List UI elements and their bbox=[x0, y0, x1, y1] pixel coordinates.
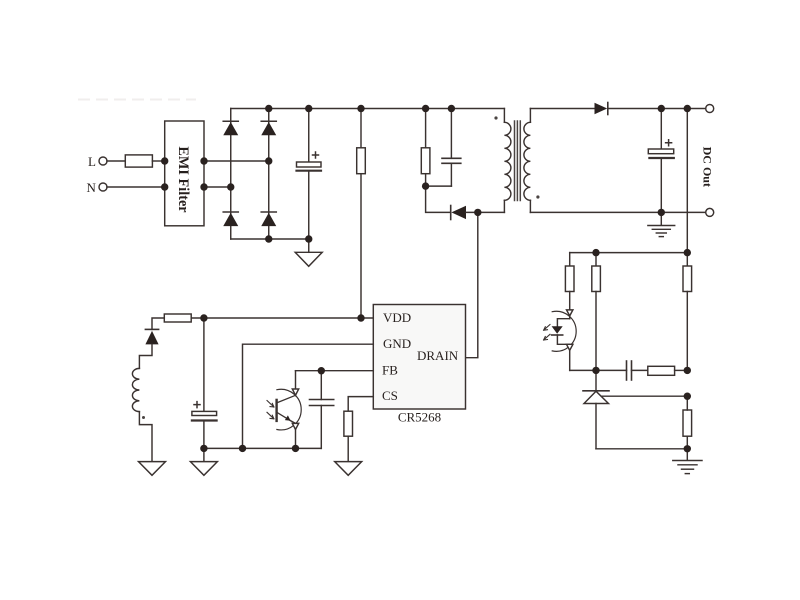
junction dot VDD at startup resistor bbox=[357, 314, 364, 321]
junction dot primary ground at opto emitter bbox=[292, 445, 299, 452]
wire drain vertical bbox=[466, 212, 478, 357]
junction dot output return at cap bbox=[658, 209, 665, 216]
diode D2 bbox=[261, 121, 276, 135]
node DC Out + terminal bbox=[706, 105, 714, 113]
junction dot TL431 ref node bbox=[684, 393, 691, 400]
junction dot snubber RC node bbox=[422, 182, 429, 189]
junction dot DC bus at bridge bbox=[265, 105, 272, 112]
polarity dot aux bbox=[142, 416, 145, 419]
wire bridge right column bbox=[268, 109, 270, 240]
node N terminal bbox=[99, 183, 107, 191]
junction dot L at EMI input bbox=[161, 157, 168, 164]
transformer T1 secondary bbox=[524, 109, 531, 213]
junction dot bridge negative rail at cap bbox=[305, 235, 312, 242]
ground primary bridge bbox=[295, 239, 322, 266]
junction dot bridge AC node N bbox=[227, 183, 234, 190]
ground aux bbox=[139, 462, 166, 476]
ground CS bbox=[335, 462, 362, 476]
wire secondary feedback top rail bbox=[570, 252, 688, 254]
wire LED bottom to TL431 node bbox=[570, 369, 596, 371]
node L terminal bbox=[99, 157, 107, 165]
junction dot DC bus at snubber resistor bbox=[422, 105, 429, 112]
faint watermark remnant bbox=[78, 99, 196, 101]
svg-text:N: N bbox=[87, 180, 97, 195]
svg-text:FB: FB bbox=[382, 362, 398, 377]
optocoupler U2 phototransistor bbox=[267, 371, 301, 449]
wire top bus primary bbox=[231, 108, 505, 110]
optocoupler U2 LED bbox=[544, 310, 577, 371]
capacitor C2 snubber bbox=[442, 109, 461, 187]
diode D3 bbox=[223, 212, 238, 226]
resistor R1 startup bbox=[357, 109, 366, 319]
inductor L1 aux winding bbox=[132, 344, 152, 461]
diode D4 bbox=[261, 212, 276, 226]
polarity dot secondary bbox=[536, 195, 539, 198]
wire primary ground rail bbox=[204, 447, 321, 449]
junction dot DC bus at startup resistor bbox=[357, 105, 364, 112]
junction dot feedback rail at divider bbox=[684, 249, 691, 256]
diode D5 snubber bbox=[451, 206, 466, 220]
fuse F1 bbox=[125, 155, 152, 167]
junction dot bridge negative rail bbox=[265, 235, 272, 242]
earth ground feedback bbox=[673, 449, 702, 474]
ground VDD cap bbox=[190, 448, 217, 475]
transformer T1 primary bbox=[504, 109, 511, 213]
junction dot FB node bbox=[318, 367, 325, 374]
svg-text:CS: CS bbox=[382, 388, 398, 403]
junction dot secondary ground node bbox=[684, 445, 691, 452]
junction dot TL431 cathode node bbox=[592, 367, 599, 374]
svg-text:DRAIN: DRAIN bbox=[417, 348, 459, 363]
capacitor C3 output electrolytic bbox=[648, 109, 674, 213]
resistor R7 divider bottom bbox=[683, 396, 692, 449]
wire FB pin bbox=[296, 370, 374, 372]
wire CS pin bbox=[348, 397, 373, 412]
resistor R9 CS sense bbox=[344, 411, 353, 436]
wire N to EMI bbox=[107, 186, 165, 188]
junction dot N at EMI input bbox=[161, 183, 168, 190]
TL431 U3 bbox=[583, 391, 687, 449]
wire TL431 anode rail bbox=[596, 448, 687, 450]
svg-text:L: L bbox=[88, 154, 96, 169]
resistor R5 divider top bbox=[683, 253, 692, 371]
wire aux R to diode bbox=[152, 318, 164, 329]
resistor R3 opto series bbox=[565, 253, 574, 319]
junction dot divider mid at comp network bbox=[684, 367, 691, 374]
wire diode to drain node bbox=[466, 211, 504, 213]
wire GND pin bbox=[243, 344, 374, 448]
junction dot primary ground at C5 bbox=[200, 445, 207, 452]
wire CS R to ground bbox=[347, 436, 349, 461]
capacitor C6 FB bbox=[310, 371, 334, 449]
resistor R6 compensation bbox=[648, 366, 675, 375]
wire diode to output terminal bbox=[608, 108, 706, 110]
wire feedback tap vertical bbox=[686, 109, 688, 253]
node DC Out - terminal bbox=[706, 208, 714, 216]
capacitor C4 compensation bbox=[596, 361, 648, 380]
wire fuse to EMI bbox=[152, 160, 164, 162]
svg-text:CR5268: CR5268 bbox=[398, 410, 441, 425]
diode D1 bbox=[223, 121, 238, 135]
svg-text:DC Out: DC Out bbox=[700, 147, 714, 187]
diode D6 output bbox=[595, 103, 608, 115]
wire EMI to bridge node N bbox=[204, 186, 231, 188]
earth ground output bbox=[648, 212, 675, 236]
junction dot L at EMI output bbox=[200, 157, 207, 164]
diode D7 aux bbox=[145, 329, 158, 344]
resistor R4 opto parallel bbox=[592, 253, 601, 391]
EMI filter box bbox=[165, 121, 204, 226]
junction dot DC bus at bulk cap bbox=[305, 105, 312, 112]
junction dot VDD at C5 bbox=[200, 314, 207, 321]
IC U1 CR5268 box bbox=[373, 305, 465, 410]
svg-text:VDD: VDD bbox=[383, 310, 411, 325]
wire VDD line bbox=[191, 317, 373, 319]
svg-text:GND: GND bbox=[383, 336, 411, 351]
resistor R2 snubber bbox=[421, 109, 430, 187]
wire bridge bottom bus bbox=[231, 238, 309, 240]
wire snubber to diode bbox=[426, 186, 450, 212]
svg-text:EMI Filter: EMI Filter bbox=[175, 146, 191, 213]
capacitor C1 bulk electrolytic bbox=[297, 109, 322, 240]
junction dot primary ground at GND wire bbox=[239, 445, 246, 452]
wire comp to divider node bbox=[675, 369, 688, 371]
junction dot drain node bbox=[474, 209, 481, 216]
junction dot Vout at output cap bbox=[658, 105, 665, 112]
capacitor C5 VDD electrolytic bbox=[192, 318, 217, 448]
wire snubber RC join bbox=[426, 185, 452, 187]
wire secondary top to diode bbox=[530, 108, 594, 110]
resistor R8 aux bbox=[164, 314, 191, 322]
junction dot N at EMI output bbox=[200, 183, 207, 190]
wire EMI to bridge node L bbox=[204, 160, 269, 162]
junction dot Vout at feedback tap bbox=[684, 105, 691, 112]
transformer core bbox=[515, 121, 521, 201]
junction dot bridge AC node L bbox=[265, 157, 272, 164]
wire secondary bottom rail bbox=[530, 211, 705, 213]
junction dot feedback rail at R4 bbox=[592, 249, 599, 256]
wire L to fuse bbox=[107, 160, 125, 162]
polarity dot primary bbox=[494, 116, 497, 119]
junction dot DC bus at snubber cap bbox=[448, 105, 455, 112]
wire bridge left column bbox=[230, 109, 232, 240]
